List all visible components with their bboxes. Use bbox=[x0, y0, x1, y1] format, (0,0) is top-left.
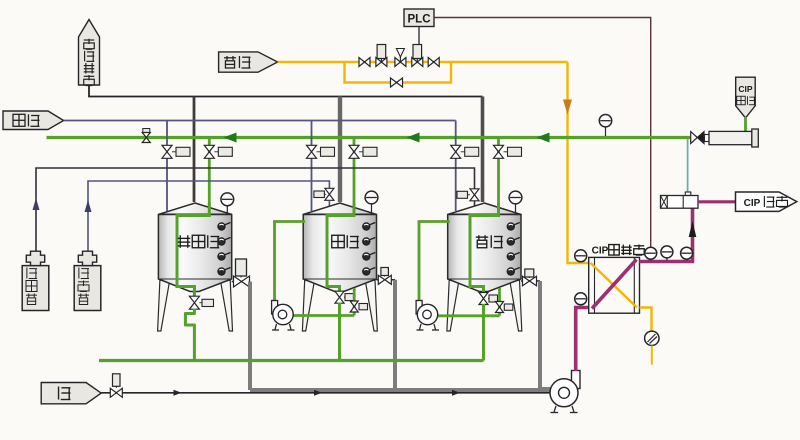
gauge on green header bbox=[599, 115, 611, 137]
valve spray tank3 bbox=[494, 145, 522, 158]
heat exchanger CIP 加热器 bbox=[589, 257, 640, 313]
pipe spray drop tank2 bbox=[353, 138, 356, 208]
tank 浓酸罐 (conc. acid bottle) bbox=[74, 251, 101, 310]
valve tank3 side outlet with actuator bbox=[521, 269, 540, 286]
pipe water-inlet header bbox=[64, 120, 456, 122]
pipe steam bypass bbox=[345, 62, 452, 83]
pipe CIP return inlet bbox=[744, 117, 747, 131]
pipe dip tube tank2 bbox=[327, 203, 354, 294]
valve steam V1 bbox=[359, 58, 370, 67]
tank T1 热水罐 (hot water tank) bbox=[158, 203, 233, 331]
pump tank2 recirculation bbox=[272, 222, 355, 331]
pipe spray drop tank1 bbox=[208, 138, 211, 208]
pump CIP supply (centrifugal) bbox=[550, 371, 580, 413]
arrow water flow 1 bbox=[174, 390, 182, 396]
pipe green bottom header bbox=[99, 359, 484, 362]
label CIP 回流 bbox=[736, 77, 756, 118]
valve spray tank2 bbox=[349, 145, 377, 158]
label CIP 供给 bbox=[736, 192, 797, 211]
filter CIP return bbox=[705, 129, 759, 147]
safety valve on steam line bbox=[395, 49, 406, 67]
tank T2 碱罐 (alkali tank) bbox=[302, 203, 377, 331]
wire PLC signal line bbox=[434, 18, 651, 248]
valve steam V4 with actuator (PLC controlled) bbox=[412, 45, 423, 67]
pipe tank1 drain to header bbox=[185, 309, 194, 361]
valve water line with actuator bbox=[110, 374, 122, 398]
valve steam bypass bbox=[391, 78, 403, 87]
pipe tank3 gray riser bbox=[540, 281, 552, 389]
pipe heater outlet to CIP supply bbox=[640, 208, 693, 262]
label 碱罐 bbox=[332, 235, 359, 248]
wire vent drop tank3 bbox=[481, 97, 485, 203]
svg-text:PLC: PLC bbox=[408, 14, 431, 26]
label 废气排放 (waste gas discharge) bbox=[79, 20, 100, 86]
valve tank2 side outlet with actuator bbox=[377, 268, 396, 285]
wire vent drop tank2 bbox=[338, 97, 342, 203]
wire inlet drop tank1 bbox=[166, 121, 168, 212]
label 水 (water supply) bbox=[41, 383, 101, 404]
wire conc-alkali line to acid tank bbox=[36, 168, 475, 251]
gauge heater cip inlet bbox=[575, 293, 587, 306]
gauge heater outlet 2 bbox=[661, 246, 673, 261]
svg-text:CIP: CIP bbox=[738, 84, 753, 94]
pipe condensate out bbox=[640, 308, 652, 332]
pump CIP supply booster bbox=[661, 139, 699, 208]
gauge tank1 top bbox=[221, 193, 234, 214]
wire inlet drop tank2 bbox=[311, 121, 313, 212]
valve tank1 drain with positioner bbox=[189, 292, 213, 310]
gauge heater steam inlet bbox=[575, 250, 587, 263]
valve spray tank1 bbox=[204, 145, 232, 158]
label 热水罐 bbox=[178, 235, 220, 248]
arrow steam flow down bbox=[563, 100, 572, 115]
arrow CIP return flow 3 bbox=[537, 133, 550, 143]
valve steam V2 with actuator bbox=[376, 45, 387, 67]
pipe steam main bbox=[278, 61, 568, 63]
arrow CIP return flow 1 bbox=[224, 133, 237, 143]
valve tank2 side-bottom outlet bbox=[350, 288, 367, 316]
svg-text:CIP: CIP bbox=[592, 246, 609, 257]
pipe tank2 gray riser bbox=[393, 280, 397, 390]
valve tank1 side outlet with actuator bbox=[232, 259, 250, 287]
valve tank2 drain bbox=[335, 291, 354, 303]
valve inlet tank3 bbox=[451, 145, 479, 158]
tank T3 酸罐 (acid tank) bbox=[447, 203, 522, 331]
sensors tank1 bbox=[218, 223, 231, 276]
gauge tank2 top bbox=[365, 191, 378, 212]
svg-text:CIP: CIP bbox=[744, 198, 761, 209]
pipe tank1 gray riser bbox=[248, 282, 252, 391]
pump tank3 recirculation bbox=[416, 222, 499, 331]
pipe steam down to heater bbox=[568, 62, 589, 263]
label 酸罐 bbox=[476, 235, 503, 248]
check valve CIP return bbox=[691, 132, 704, 144]
valve tank3 side-bottom outlet bbox=[496, 288, 513, 316]
valve steam V5 bbox=[428, 58, 439, 67]
wire vent drop tank1 bbox=[193, 97, 196, 203]
pipe dip tube tank1 bbox=[177, 203, 209, 294]
valve conc feed tank2 bbox=[314, 188, 334, 207]
gauge heater outlet 1 bbox=[645, 247, 657, 260]
valve inlet tank1 bbox=[162, 145, 190, 158]
PLC controller box bbox=[404, 9, 434, 27]
sensors tank3 bbox=[507, 223, 520, 276]
arrow water flow 2 bbox=[314, 390, 322, 396]
pipe CIP pump discharge bbox=[576, 308, 589, 372]
valve tank3 drain bbox=[479, 293, 498, 305]
wire PLC to steam valve actuator bbox=[418, 27, 420, 45]
wire inlet drop tank3 bbox=[455, 121, 457, 212]
arrow conc-alkali up bbox=[33, 198, 40, 210]
pipe spray drop tank3 bbox=[497, 138, 500, 208]
valve conc feed tank3 bbox=[457, 189, 479, 207]
tank 浓碱罐 (conc. alkali bottle) bbox=[22, 251, 49, 310]
pipe tank3 drain to header bbox=[482, 304, 485, 361]
pipe CIP return header bbox=[47, 136, 691, 139]
pipe water suction line bbox=[101, 392, 551, 394]
gauge heater outlet 3 bbox=[681, 247, 693, 260]
label CIP 加热器 bbox=[592, 245, 645, 257]
arrow conc-acid up bbox=[85, 200, 92, 212]
wire waste-gas header bbox=[89, 85, 483, 97]
sensors tank2 bbox=[363, 223, 376, 276]
pipe gray bottom header bbox=[250, 388, 552, 392]
wire conc-acid line to alkali tank bbox=[88, 181, 329, 251]
valve small on green header bbox=[142, 129, 150, 143]
valve inlet tank2 bbox=[307, 145, 335, 158]
arrow CIP return flow 2 bbox=[407, 133, 420, 143]
arrow CIP supply up bbox=[689, 221, 697, 237]
gauge tank3 top bbox=[509, 191, 522, 212]
label 蒸汽 (steam) bbox=[219, 52, 278, 72]
pipe CIP supply out bbox=[698, 200, 737, 203]
pipe tank2 drain to header bbox=[338, 303, 341, 361]
steam trap bbox=[645, 331, 659, 364]
arrow water flow 3 bbox=[452, 390, 460, 396]
pipe dip tube tank3 bbox=[470, 203, 499, 294]
label 进水 (water inlet) bbox=[3, 111, 64, 130]
